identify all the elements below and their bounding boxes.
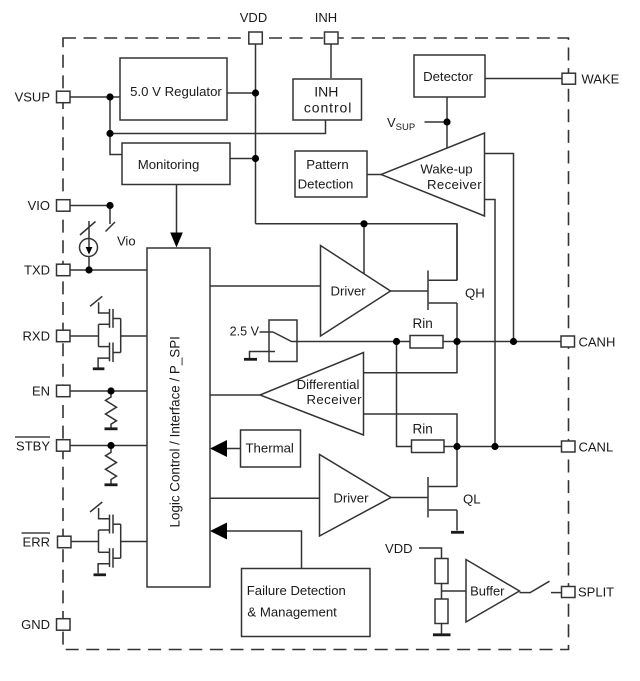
wire regulator output to VDD rail [227,92,256,94]
switch slash on buffer output [530,581,550,593]
wire to SPLIT pin [551,592,562,594]
wire thermal to logic (arrow) [225,448,241,450]
ground bar below STBY resistor [105,483,118,486]
wire buffer output [520,592,531,594]
node driver1 supply junction [360,220,367,227]
node CANL-wakeup junction [491,443,498,450]
transistor pair on RXD output [70,296,147,367]
svg-text:Logic Control / Interface / P_: Logic Control / Interface / P_SPI [168,336,183,527]
wire INH-control feed from VSUP rail [110,120,326,134]
2.5 V switch box [269,320,297,362]
pin VDD [249,32,262,44]
svg-text:5.0 V Regulator: 5.0 V Regulator [130,84,222,99]
node CANL-QL junction [453,443,460,450]
block Failure Detection & Management [242,569,371,637]
block Monitoring [122,143,230,185]
wire divider tap to buffer [442,590,467,592]
node VSUP-INHfeed junction [106,130,113,137]
node CANH-Rin junction [393,338,400,345]
svg-text:Monitoring: Monitoring [138,157,200,172]
svg-text:Pattern: Pattern [306,157,349,172]
svg-text:TXD: TXD [24,263,50,278]
current source I_Vio circle [80,239,98,257]
svg-text:CANH: CANH [579,335,616,350]
pin VIO [57,200,71,212]
svg-text:Vio: Vio [117,234,136,249]
wire QL drain to CANL [456,447,458,488]
wire VDD stub to divider [419,548,442,559]
svg-text:VDD: VDD [240,10,267,25]
IC boundary dashed border [63,38,569,650]
svg-text:Wake-up: Wake-up [420,162,472,177]
svg-text:Failure Detection: Failure Detection [247,583,346,598]
svg-text:ERR: ERR [23,535,50,550]
node regulator-VDD junction [252,89,259,96]
ground bar below QL [451,531,464,534]
wire monitoring to logic (arrow) [176,185,178,235]
svg-text:& Management: & Management [247,605,337,620]
node VIO junction [106,202,113,209]
switch slash on VIO branch [106,222,116,232]
pin VSUP [57,91,71,103]
svg-text:Driver: Driver [331,283,367,298]
resistor divider upper (SPLIT) [435,559,448,584]
svg-text:RXD: RXD [23,329,50,344]
wire divider bottom to ground [441,624,443,634]
svg-text:WAKE: WAKE [582,72,620,87]
resistor Rin (CANH) [410,316,443,348]
wire STBY pin to logic [70,445,147,447]
resistor Rin (CANL) [412,422,445,453]
wire divider middle [441,584,443,600]
wire VDD rail to QH drain [256,224,458,281]
transistor QL [428,477,457,531]
svg-text:INH: INH [315,10,337,25]
svg-text:Rin: Rin [413,422,433,437]
pin RXD [57,330,71,342]
pin ERR [58,536,72,548]
resistor pull-down on STBY [106,446,117,484]
svg-text:VIO: VIO [28,198,50,213]
block Detector [414,55,485,97]
svg-text:VDD: VDD [385,541,412,556]
current source arrow shaft [88,221,90,252]
switch blade inside box [273,332,297,342]
node CANH-wakeup junction [510,338,517,345]
ground bar at 2.5V switch [244,358,257,361]
wire CANH rail [297,341,562,343]
wire failure detection to logic (arrow) [225,531,302,569]
node VSUP-regulator junction [106,93,113,100]
node monitoring-VDD junction [252,155,259,162]
node EN junction [107,387,114,394]
svg-text:Buffer: Buffer [470,584,505,599]
svg-text:Detector: Detector [423,69,473,84]
svg-text:QH: QH [465,286,485,301]
pin GND [57,619,71,631]
wire monitoring to VDD rail [230,158,256,160]
pin SPLIT [562,587,576,598]
block 5.0 V Regulator [120,58,227,120]
op-amp differential receiver [260,353,364,436]
wire detector to wake-up receiver [446,97,448,149]
svg-text:Rin: Rin [413,316,433,331]
transistor QH [428,224,457,310]
svg-text:VSUP: VSUP [15,90,50,105]
pin CANH [561,336,575,347]
wire VDD pin vertical rail [255,45,257,224]
wire VIO pin to rail [70,205,110,207]
op-amp driver (bottom) [320,455,392,537]
pin WAKE [562,73,576,84]
wire detector to WAKE pin [485,78,562,80]
op-amp driver (top) [321,246,391,337]
pin TXD [57,264,71,276]
wire 2.5V reference to switch [260,331,274,333]
svg-text:STBY: STBY [16,439,50,454]
wire driver1 supply branch [363,224,365,275]
switch slash on current source branch [80,222,96,236]
wire switch ground input [250,352,276,359]
pin STBY [57,440,71,452]
wire VSUP pin to regulator [70,96,120,98]
svg-text:control: control [304,100,352,116]
wire VIO switchable branch [109,206,111,225]
block Logic Control / Interface / P_SPI [147,248,210,587]
svg-text:GND: GND [21,617,50,632]
svg-text:Receiver: Receiver [306,392,362,407]
svg-text:Receiver: Receiver [427,177,482,192]
pin CANL [562,441,576,452]
wire Rin common leg (CANH node down to Rin2) [397,342,412,447]
wire pattern detection to wake-up receiver [367,174,381,176]
block INH control [293,79,362,120]
wire wake-up receiver output bottom to CANL [485,200,496,447]
wire current source to TXD line [88,257,90,271]
pin INH [325,32,339,44]
node VSUP-detector junction [443,118,450,125]
wire EN pin to logic [70,390,147,392]
op-amp wake-up receiver [381,133,485,216]
wire logic to driver1 [210,285,321,287]
ground bar below divider [433,633,451,636]
wire driver1 to QH gate [391,290,429,292]
node TXD junction [85,266,92,273]
wire CANL rail [444,446,562,448]
node STBY junction [107,442,114,449]
svg-text:Detection: Detection [298,176,354,191]
wire INH pin to INH control [330,45,332,79]
wire logic to differential receiver [210,394,260,396]
resistor pull-down on EN [106,391,117,428]
svg-text:Thermal: Thermal [246,441,294,456]
svg-text:Driver: Driver [333,491,369,506]
svg-text:2.5 V: 2.5 V [230,325,260,339]
wire QH source to CANH [456,303,458,342]
wire VSUP label stub [425,121,448,123]
svg-text:QL: QL [463,492,481,507]
wire TXD pin to logic [70,269,147,271]
svg-text:SPLIT: SPLIT [578,585,614,600]
wire logic to driver2 [210,497,320,499]
svg-text:EN: EN [32,384,50,399]
transistor pair on ERR output [71,502,147,573]
resistor divider lower (SPLIT) [435,599,448,624]
svg-text:INH: INH [314,84,338,100]
ground bar below ERR transistor pair [94,573,107,576]
ground bar below EN resistor [105,427,118,430]
block Thermal [241,430,301,467]
pin EN [57,385,71,397]
wire driver2 to QL gate [391,497,428,499]
block Pattern Detection [295,151,367,197]
wire VSUP vertical rail [110,97,122,155]
svg-text:Differential: Differential [297,377,360,392]
wire CANH node to diff receiver upper input [364,342,458,373]
node CANH-QH junction [453,338,460,345]
svg-text:CANL: CANL [579,440,614,455]
wire diff receiver lower input to CANL node [364,414,458,447]
ground bar below RXD transistor pair [93,367,105,370]
wire wake-up receiver output top to CANH [485,154,514,342]
op-amp buffer [466,560,520,623]
